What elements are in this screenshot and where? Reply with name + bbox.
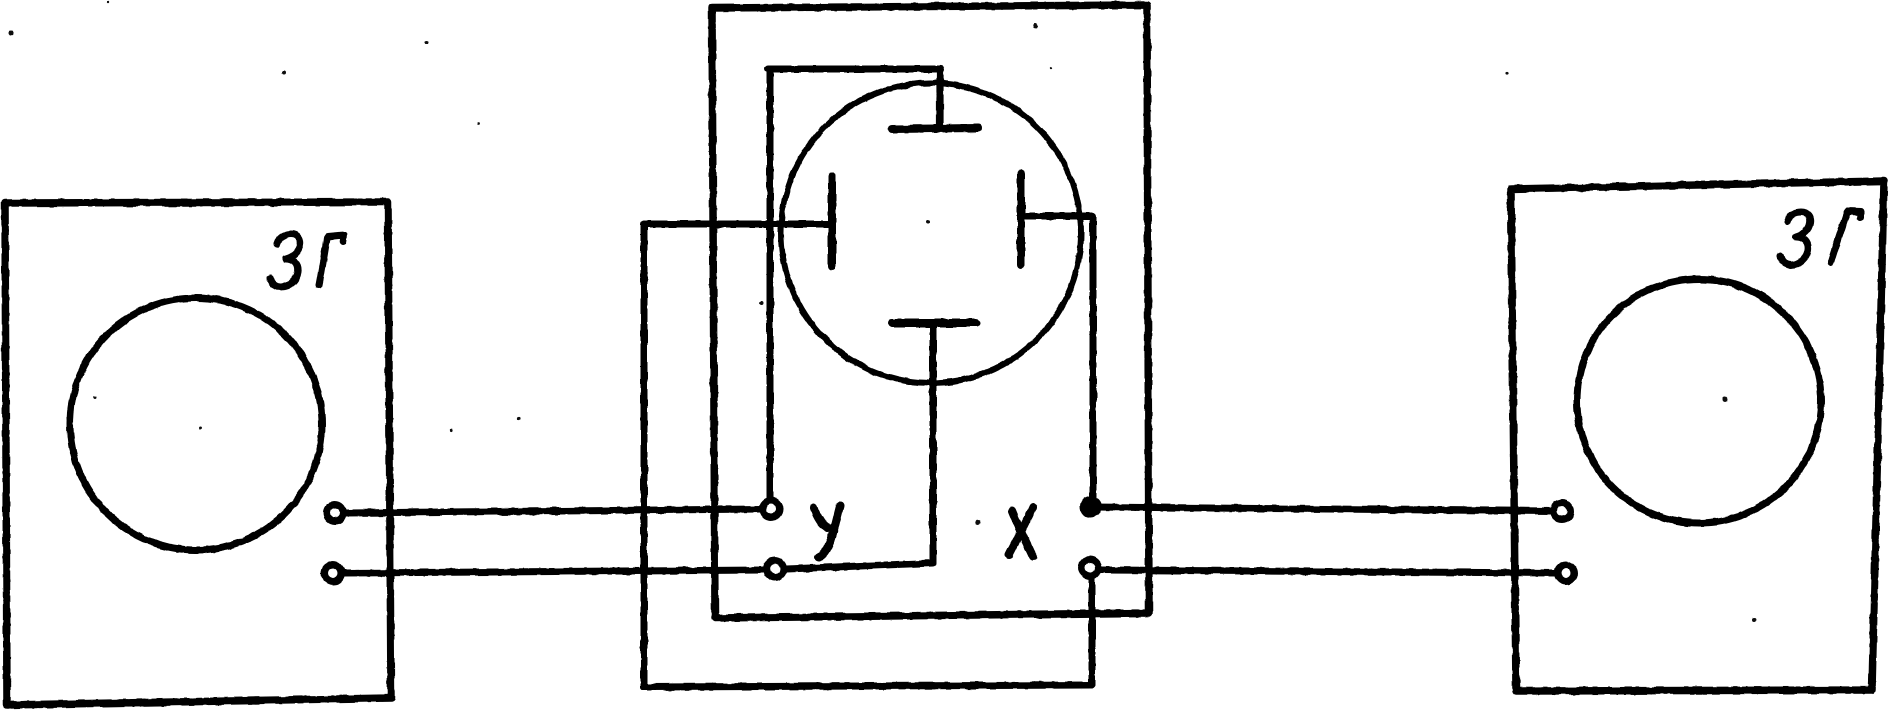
terminal Y upper [763,501,780,518]
top deflection plate [892,128,978,129]
left deflection plate [828,176,836,266]
wire top horizontal to left [768,66,941,73]
terminal left gen upper [327,505,344,522]
wire X upper to right gen [1091,507,1553,511]
wire down to Y upper terminal [767,69,774,500]
wire left side down [641,224,648,687]
generator ZG left box [5,202,391,705]
oscilloscope box [712,5,1149,618]
CRT envelope circle [781,83,1081,383]
wire bottom horizontal [644,685,1092,687]
label Y [814,506,840,557]
terminal Y lower [767,561,784,578]
left plate lead [646,221,828,228]
wire up to X lower terminal [1089,578,1096,685]
generator ZG right box [1511,181,1884,691]
bottom plate lead [786,323,933,569]
terminal right gen lower [1558,565,1575,582]
junction X upper filled dot [1080,496,1102,518]
right deflection plate [1017,174,1025,265]
terminal X lower [1082,560,1099,577]
label X [1009,507,1033,557]
label ZG right [1780,211,1861,265]
label ZG left [270,234,344,287]
generator ZG left dial circle [70,298,322,550]
wire Y lower: left gen to oscilloscope [344,570,766,573]
wire Y upper: left gen to oscilloscope [346,509,762,513]
top plate lead [936,69,943,128]
bottom deflection plate [892,319,976,327]
wire X lower to right gen [1100,570,1557,573]
terminal right gen upper [1554,503,1571,520]
generator ZG right dial circle [1577,279,1821,523]
terminal left gen lower [325,565,342,582]
right plate lead [1026,216,1093,498]
